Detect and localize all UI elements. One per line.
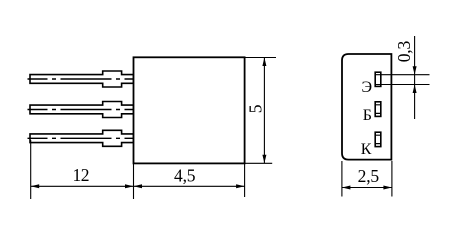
arrow 2,5 right <box>383 186 392 190</box>
pin B inner lines <box>375 105 381 114</box>
pin K cross-section <box>375 132 381 146</box>
arrow 12 left <box>31 184 40 188</box>
arrow 4,5 left <box>134 184 143 188</box>
arrow 4,5 right <box>236 184 245 188</box>
centerline lead 3 <box>28 137 134 139</box>
extension line pin top (for 0,3) <box>376 74 430 76</box>
extension line body top edge (for 5) <box>245 57 276 59</box>
arrow 12 right <box>125 184 134 188</box>
extension line package left edge <box>341 161 343 197</box>
lead 1 (emitter, side view) <box>30 71 134 87</box>
dimension line 12 <box>31 185 134 187</box>
lead 2 (base, side view) <box>30 102 134 118</box>
extension line body bottom edge (for 5) <box>245 162 272 164</box>
svg-text:5: 5 <box>245 104 265 113</box>
package outline (front view) <box>342 54 391 160</box>
extension line body right edge <box>244 163 246 197</box>
arrow 5 bottom <box>262 155 266 164</box>
svg-text:2,5: 2,5 <box>358 166 380 186</box>
lead 3 (collector, side view) <box>30 130 134 146</box>
centerline lead 1 <box>28 78 134 80</box>
body outline (side view) <box>134 57 245 163</box>
pin K inner lines <box>375 135 381 143</box>
centerline lead 2 <box>28 109 134 111</box>
svg-text:4,5: 4,5 <box>174 165 196 185</box>
arrow 0,3 upper <box>413 66 417 75</box>
extension line pin bottom (for 0,3) <box>376 84 430 86</box>
svg-text:12: 12 <box>73 165 90 185</box>
svg-text:0,3: 0,3 <box>394 41 414 63</box>
dimension line 2,5 <box>342 187 392 189</box>
extension line left (lead tips) <box>30 140 32 199</box>
pin B cross-section <box>375 102 381 117</box>
svg-text:Б: Б <box>363 107 372 124</box>
extension line package right edge <box>391 161 393 197</box>
dimension line 4,5 <box>134 185 245 187</box>
dimension line 5 <box>263 58 265 164</box>
arrow 5 top <box>262 58 266 67</box>
extension line body left edge <box>133 163 135 199</box>
dimension line 0,3 <box>414 36 416 119</box>
arrow 0,3 lower <box>413 85 417 94</box>
pin E cross-section <box>375 72 381 86</box>
arrow 2,5 left <box>342 186 351 190</box>
svg-text:К: К <box>361 141 372 158</box>
svg-text:Э: Э <box>362 79 373 96</box>
